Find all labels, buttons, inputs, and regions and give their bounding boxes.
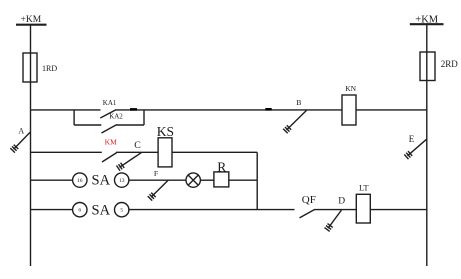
label LT	[359, 183, 369, 193]
fuse 2RD	[420, 52, 435, 81]
label 1RD	[42, 64, 57, 73]
wire line1 right segment	[356, 109, 427, 111]
svg-text:QF: QF	[302, 194, 316, 206]
contact QF blade	[300, 209, 315, 218]
svg-text:C: C	[134, 140, 141, 151]
wire line2 left segment	[31, 151, 102, 153]
svg-text:SA: SA	[92, 202, 111, 218]
svg-text:+KM: +KM	[21, 15, 42, 25]
svg-text:+KM: +KM	[415, 14, 439, 25]
svg-text:LT: LT	[359, 183, 369, 193]
left bus bar +KM	[16, 24, 47, 26]
svg-text:E: E	[409, 134, 415, 144]
wire branch right vertical	[143, 110, 145, 125]
label 2RD	[441, 59, 459, 69]
wire left bus vertical	[30, 25, 32, 266]
svg-text:KS: KS	[157, 124, 174, 139]
label KA1	[103, 99, 117, 107]
terminal circle 13	[115, 173, 129, 187]
contact KM blade	[102, 153, 117, 162]
signal lamp	[186, 173, 200, 187]
relay LT coil	[356, 194, 370, 223]
label +KM right	[415, 14, 439, 25]
junction dash 1	[130, 108, 137, 111]
junction dash 2	[265, 108, 271, 111]
wire line1 left segment	[31, 109, 101, 111]
wire right bus vertical	[426, 24, 428, 266]
label D	[338, 197, 345, 207]
wire line1 middle segment	[116, 109, 343, 111]
svg-text:SA: SA	[92, 173, 111, 189]
link B	[283, 110, 306, 133]
link A	[10, 132, 30, 152]
label KN	[345, 84, 356, 93]
right bus bar +KM	[410, 23, 444, 25]
wire lamp to R	[200, 179, 214, 181]
link E	[404, 139, 426, 159]
contact KA2 blade	[102, 125, 117, 133]
svg-text:KM: KM	[105, 137, 117, 146]
wire branch bottom left	[74, 124, 101, 126]
wire line2 mid segment	[116, 151, 158, 153]
svg-text:6: 6	[78, 208, 81, 214]
wire line2 right segment	[172, 151, 257, 153]
terminal circle 16	[73, 173, 87, 187]
fuse 1RD	[23, 53, 37, 82]
svg-text:13: 13	[119, 178, 125, 184]
label C	[134, 140, 141, 151]
wire branch bottom right	[116, 124, 144, 126]
svg-text:16: 16	[77, 178, 83, 184]
wire branch left vertical	[73, 110, 75, 125]
wire line4 QF to LT	[315, 209, 357, 211]
wire connector vertical node	[256, 152, 258, 209]
wire line4 LT to bus	[370, 209, 427, 211]
label KS	[157, 124, 174, 139]
svg-text:2RD: 2RD	[441, 59, 459, 69]
label QF	[302, 194, 316, 206]
link F	[148, 180, 168, 200]
label KA2	[109, 112, 123, 120]
wire line4 long segment	[129, 209, 295, 211]
wire line4 stub from bus	[31, 209, 73, 211]
resistor R	[214, 172, 229, 187]
svg-text:KA1: KA1	[103, 99, 117, 107]
svg-text:R: R	[217, 159, 226, 174]
label SA upper	[92, 173, 111, 189]
label SA lower	[92, 202, 111, 218]
svg-text:B: B	[296, 98, 301, 107]
label E	[409, 134, 415, 144]
wire R to connector	[229, 179, 257, 181]
svg-text:KN: KN	[345, 84, 356, 93]
contact KA1 blade	[100, 110, 116, 118]
wire line3 stub from bus	[31, 179, 73, 181]
label R	[217, 159, 226, 174]
link D	[325, 210, 342, 231]
svg-text:5: 5	[120, 208, 123, 214]
relay KN coil	[342, 95, 356, 125]
label A	[18, 127, 24, 136]
terminal circle 5	[115, 203, 129, 217]
svg-text:F: F	[154, 169, 159, 178]
svg-text:1RD: 1RD	[42, 64, 57, 73]
svg-text:D: D	[338, 197, 345, 207]
relay KS coil	[158, 138, 172, 167]
label B	[296, 98, 301, 107]
svg-text:A: A	[18, 127, 24, 136]
label KM (red)	[105, 137, 117, 146]
wire line3 mid segment	[129, 179, 186, 181]
label F	[154, 169, 159, 178]
link C	[117, 153, 142, 171]
label +KM left	[21, 15, 42, 25]
svg-text:KA2: KA2	[109, 112, 123, 120]
terminal circle 6	[73, 203, 87, 217]
